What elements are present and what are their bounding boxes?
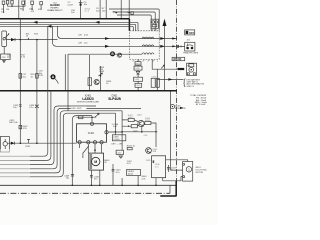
capacitor C5 — [79, 0, 83, 19]
capacitor C405 — [116, 150, 124, 154]
capacitor C305 — [151, 76, 159, 87]
label M101 DC MOTOR — [196, 167, 208, 174]
trimmer mark — [98, 73, 102, 76]
wire box bottom — [162, 178, 164, 181]
wire — [121, 111, 123, 150]
svg-text:IC401: IC401 — [88, 132, 95, 135]
node — [100, 75, 102, 77]
tape switch SW2 — [0, 137, 9, 153]
wire switch to box — [3, 47, 5, 55]
routed wire bundle 6 — [0, 113, 116, 177]
boxed label C406 — [112, 135, 125, 141]
bus line B+ thick — [0, 19, 129, 31]
wires below IC — [80, 144, 102, 153]
OFF box — [185, 30, 195, 35]
arrow left on bus 2 — [33, 21, 38, 24]
bus2 thick — [0, 90, 177, 92]
svg-text:6.3V: 6.3V — [39, 75, 44, 77]
IC2 label — [47, 3, 63, 12]
resistor R1 — [2, 1, 5, 13]
wire thread stacked — [137, 59, 139, 90]
wire — [115, 113, 117, 135]
wire — [64, 54, 66, 90]
fade overlay on left bundle — [0, 149, 30, 180]
capacitor C414 — [167, 165, 177, 172]
capacitor mark x20 — [19, 105, 22, 106]
routed wire bundle 3 — [0, 106, 96, 165]
pin right — [105, 131, 108, 134]
resistor R413 — [79, 116, 83, 119]
resistor R5 — [31, 1, 34, 10]
battery brace — [184, 79, 186, 87]
signal line 1 — [58, 26, 177, 38]
wire x72 — [72, 116, 92, 186]
node — [121, 185, 123, 187]
box TAPE left — [1, 54, 11, 63]
resistor R419 — [131, 125, 137, 128]
headphone plug — [176, 45, 184, 48]
capacitor C4 — [40, 2, 43, 10]
node — [36, 39, 38, 41]
node — [20, 142, 22, 144]
speaker box — [187, 63, 197, 75]
capacitor tick — [27, 139, 30, 143]
node — [91, 185, 93, 187]
bus node — [19, 18, 21, 20]
svg-text:SPEC.S: SPEC.S — [187, 86, 195, 88]
svg-text:0.047: 0.047 — [68, 4, 74, 6]
capacitor C409 — [64, 175, 74, 180]
stacked box C304 — [135, 83, 142, 87]
transistor Q301 on line3 — [117, 53, 121, 57]
resistor R3 top-left — [6, 0, 13, 4]
diode mark x36 — [35, 105, 39, 108]
right border dash-dot — [176, 0, 178, 182]
wire — [141, 127, 143, 132]
box C408 — [152, 156, 166, 178]
signal line 3 — [68, 53, 142, 55]
wire — [120, 0, 122, 19]
IC401 title — [77, 95, 99, 104]
arrow left on bus 2 right — [95, 21, 100, 24]
wire — [137, 176, 139, 186]
svg-text:AT 3.5mW: AT 3.5mW — [196, 103, 205, 106]
wire — [121, 178, 123, 185]
svg-text:0.047u: 0.047u — [113, 139, 120, 141]
boxed label R438 — [127, 170, 141, 176]
wire — [128, 0, 130, 19]
wire — [36, 40, 38, 144]
svg-text:10k-B: 10k-B — [128, 174, 134, 176]
routed wire bundle 4 — [0, 108, 141, 168]
svg-text:LA5523: LA5523 — [82, 97, 94, 101]
arrow right on line1 at border — [160, 37, 165, 40]
IC401 box — [77, 124, 107, 142]
wire — [8, 4, 19, 6]
wire — [99, 0, 101, 19]
resistor on wire x36 — [31, 74, 39, 79]
trimmer arrow — [95, 113, 99, 117]
svg-text:4C: 4C — [104, 162, 107, 164]
svg-text:MOTOR CONTROLLER: MOTOR CONTROLLER — [77, 102, 99, 104]
total current note — [190, 94, 207, 106]
svg-text:MOTOR: MOTOR — [196, 172, 204, 174]
resistor R437 — [19, 125, 28, 130]
speaker plug — [176, 68, 184, 70]
pin bottom 1 — [78, 141, 81, 144]
routed wire bundle 2 — [0, 91, 51, 161]
wire — [170, 91, 172, 160]
bus wire 3 — [0, 24, 136, 31]
wire x100 — [100, 66, 102, 91]
line above IC — [77, 116, 97, 118]
wire play line — [7, 142, 76, 144]
stacked box D303 — [134, 77, 143, 81]
transistor Q403 — [146, 148, 159, 154]
battery note — [187, 78, 205, 88]
wire feed line 2 — [113, 12, 155, 31]
node — [36, 142, 38, 144]
node — [155, 185, 157, 187]
border corner verticals — [169, 185, 171, 193]
wire — [67, 54, 69, 111]
node — [94, 149, 96, 151]
arrow right on line2 at border — [160, 45, 165, 48]
coil row 1 — [142, 37, 154, 38]
resistor R418 — [145, 120, 151, 125]
bus node — [80, 18, 82, 20]
svg-text:DET → ON: DET → ON — [112, 143, 123, 145]
wire — [156, 69, 158, 91]
motor drive box — [89, 153, 104, 170]
bus node — [105, 18, 107, 20]
bus wire 4 — [0, 26, 133, 31]
bottom border dash-dot — [0, 192, 170, 194]
diagonal wire — [83, 146, 89, 158]
wire — [19, 19, 21, 144]
transistor tick — [161, 65, 164, 68]
wire to IC pin — [91, 117, 93, 122]
svg-text:2SB: 2SB — [152, 151, 156, 153]
arrow right on line1 — [105, 37, 110, 40]
DC jack — [170, 105, 186, 111]
transformer box T301 dashed — [130, 31, 160, 60]
headphones jack box — [185, 42, 195, 51]
pin bottom 4 — [100, 141, 103, 144]
wire lower motor loop — [163, 177, 183, 181]
transistor Q401 — [94, 79, 99, 84]
node — [137, 185, 139, 187]
capacitor C413 — [112, 164, 122, 185]
label R423 — [127, 146, 136, 150]
bus node — [120, 18, 122, 20]
wire — [105, 0, 107, 19]
wire from switch — [6, 39, 57, 41]
svg-text:(FM IN): (FM IN) — [173, 58, 181, 61]
capacitor C410 — [90, 170, 100, 185]
diode D302 — [136, 71, 140, 74]
svg-text:REC 10k: REC 10k — [9, 122, 18, 124]
resistor on wire x20 — [19, 74, 27, 79]
wire — [99, 170, 101, 185]
routed wire bundle 1 — [0, 26, 48, 156]
stacked resistor R302 — [135, 62, 141, 66]
svg-text:JK301: JK301 — [152, 29, 159, 31]
svg-text:SLP4UB: SLP4UB — [108, 97, 121, 101]
node — [99, 185, 101, 187]
label LHD SUP on line — [71, 106, 87, 110]
stacked resistor R303 — [134, 66, 142, 70]
routed wire bundle 5 — [0, 111, 122, 173]
wire — [19, 0, 25, 19]
node — [91, 116, 93, 118]
svg-text:POWER IN: POWER IN — [175, 108, 186, 110]
bus node — [99, 18, 101, 20]
thick corner L — [160, 181, 176, 196]
wire — [155, 178, 157, 186]
wire to motor terminal mid — [171, 160, 183, 171]
jack box JK301 — [151, 19, 158, 28]
bus wire 2 — [0, 22, 138, 31]
node — [121, 131, 123, 133]
wire feed line 3 — [117, 15, 151, 31]
callout A — [50, 74, 58, 83]
arrow right on line2 — [105, 45, 110, 48]
coil row 2 — [142, 45, 154, 46]
extra cluster labels — [115, 114, 157, 136]
wire x89 — [89, 55, 91, 91]
tick row under transformer — [133, 60, 158, 62]
resistor R2 — [22, 1, 25, 11]
cluster wires — [122, 120, 156, 147]
resistor R417 — [128, 117, 134, 122]
capacitor C14 — [28, 38, 29, 39]
wire h131 — [108, 131, 157, 133]
transistor Q402 — [138, 120, 144, 126]
signal line 2 — [53, 26, 177, 46]
node on line3 — [120, 53, 122, 55]
pin bottom 3 — [93, 141, 96, 144]
diode D404 — [119, 156, 122, 158]
svg-text:FM/AM SELECT: FM/AM SELECT — [47, 9, 63, 12]
svg-text:OFF: OFF — [189, 31, 195, 35]
diode D1 — [11, 38, 15, 41]
pin bottom 2 — [87, 141, 90, 144]
coil row 3 — [142, 53, 154, 54]
node — [141, 131, 143, 133]
node — [20, 39, 22, 41]
up arrow wire — [163, 19, 167, 91]
wire to motor terminal top — [166, 160, 188, 162]
bus2 nodes — [19, 90, 165, 92]
node — [11, 6, 12, 7]
svg-text:4.7u: 4.7u — [155, 166, 159, 168]
arrow left on bus 4 — [47, 25, 52, 28]
FM IN label — [172, 57, 185, 61]
D301 title — [108, 95, 121, 101]
connector box — [88, 78, 92, 86]
wire battery note — [157, 78, 183, 81]
svg-text:LND. SUP: LND. SUP — [71, 108, 82, 110]
bottom border solid — [0, 184, 176, 186]
wire to speaker — [152, 59, 176, 69]
svg-text:HEADPHONES: HEADPHONES — [183, 52, 199, 55]
switch S1 — [2, 31, 9, 47]
svg-text:M: M — [94, 160, 97, 164]
pin top — [90, 122, 93, 125]
node — [72, 185, 74, 187]
svg-text:R101: R101 — [25, 146, 31, 148]
motor M101 box — [183, 162, 193, 182]
diode D405 — [11, 142, 15, 145]
callout B — [110, 51, 115, 56]
wire feed line 1 — [109, 9, 159, 31]
